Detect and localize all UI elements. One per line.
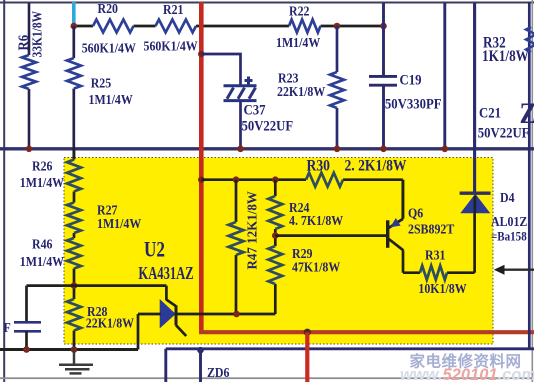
border frame right <box>532 0 534 382</box>
resistor R47 <box>229 222 244 255</box>
node red line junction <box>304 329 311 336</box>
red power line horizontal <box>199 330 534 334</box>
node divider junction <box>71 282 78 289</box>
node R23-bus junction <box>334 146 341 153</box>
wire C19 branch <box>382 3 385 149</box>
node cathode junction <box>233 311 240 318</box>
transistor Q6 <box>388 180 404 273</box>
svg-text:F: F <box>4 319 11 335</box>
resistor R20 <box>93 20 134 33</box>
resistor R26 <box>67 160 81 192</box>
svg-text:Z: Z <box>520 97 534 130</box>
wire cyan segment top <box>72 2 76 25</box>
wire U2 anode to ground <box>138 314 161 350</box>
svg-text:1M1/4W: 1M1/4W <box>89 91 133 107</box>
wire external arrow <box>502 269 534 271</box>
svg-text:Q6: Q6 <box>408 204 424 220</box>
wire R6 branch <box>28 3 31 149</box>
node Q6 base junction <box>272 232 279 239</box>
node C37 tap on red line <box>198 51 205 58</box>
svg-text:www.520101.com: www.520101.com <box>400 366 534 382</box>
red power line vertical <box>199 2 204 330</box>
wire R23 branch <box>336 26 339 149</box>
svg-text:C37: C37 <box>244 102 266 118</box>
node C19 top junction <box>380 23 387 30</box>
node ZD6 junction <box>197 347 204 354</box>
capacitor C37 <box>224 77 257 101</box>
resistor R21 <box>156 20 197 33</box>
svg-text:560K1/4W: 560K1/4W <box>144 38 198 54</box>
U2 anode tick <box>176 325 186 336</box>
wire D4 stem <box>474 196 477 213</box>
svg-text:1M1/4W: 1M1/4W <box>97 215 141 231</box>
svg-text:R26: R26 <box>32 158 53 174</box>
svg-text:R47 12K1/8W: R47 12K1/8W <box>244 191 260 270</box>
svg-text:4. 7K1/8W: 4. 7K1/8W <box>289 212 343 228</box>
svg-text:10K1/8W: 10K1/8W <box>418 280 466 296</box>
svg-text:22K1/8W: 22K1/8W <box>277 83 325 99</box>
diode D4 <box>461 195 489 213</box>
svg-text:R46: R46 <box>32 236 53 252</box>
node C37-bus junction <box>237 146 244 153</box>
node R47 top junction <box>233 176 240 183</box>
svg-text:C21: C21 <box>479 106 501 122</box>
wire ref node horizontal <box>27 286 167 322</box>
svg-text:R31: R31 <box>425 247 445 263</box>
svg-text:R30: R30 <box>307 158 330 175</box>
resistor R23 <box>330 72 344 108</box>
wire middle column <box>73 149 76 350</box>
wire R30 rail <box>201 180 402 219</box>
resistor R28 <box>67 299 81 331</box>
node top-left junction <box>71 23 78 30</box>
svg-text:=Ba158: =Ba158 <box>491 229 527 244</box>
capacitor CF <box>14 322 41 331</box>
wire ZD6 branch <box>199 350 202 382</box>
wire Q6 base <box>275 234 386 237</box>
svg-text:2SB892T: 2SB892T <box>408 220 455 236</box>
wire ground bus left <box>0 348 138 351</box>
wire right edge vertical <box>528 2 531 349</box>
resistor R25 <box>67 58 81 89</box>
resistor R24 <box>268 196 282 229</box>
svg-text:2. 2K1/8W: 2. 2K1/8W <box>345 158 407 175</box>
node R30 tap on red line <box>198 176 205 183</box>
capacitor C19 <box>369 76 397 85</box>
svg-text:KA431AZ: KA431AZ <box>138 264 193 284</box>
svg-text:C19: C19 <box>400 72 422 88</box>
svg-text:33K1/8W: 33K1/8W <box>29 11 44 58</box>
op-amp U2 KA431 regulator <box>160 300 175 327</box>
wire C37 branch <box>201 54 240 149</box>
U2 ref tick <box>166 300 176 307</box>
resistor R22 <box>289 20 321 33</box>
node x445-bus junction <box>442 146 449 153</box>
svg-text:560K1/4W: 560K1/4W <box>82 39 136 55</box>
border frame top <box>0 2 534 4</box>
svg-text:1M1/4W: 1M1/4W <box>20 253 64 269</box>
svg-text:AL01Z: AL01Z <box>491 213 527 229</box>
svg-text:1M1/4W: 1M1/4W <box>20 174 64 190</box>
svg-text:22K1/8W: 22K1/8W <box>86 314 134 330</box>
wire top horizontal rail <box>74 25 384 28</box>
resistor R27 <box>67 203 81 234</box>
wire red branch down <box>305 332 309 382</box>
node C19-bus junction <box>380 146 387 153</box>
wire mid bus horizontal <box>0 147 534 150</box>
node CF-ground junction <box>23 346 30 353</box>
node R28-ground junction <box>71 346 78 353</box>
wire R47 branch <box>235 180 238 222</box>
svg-text:D4: D4 <box>500 189 515 205</box>
wire R24 branch <box>274 180 277 246</box>
highlight region U2 block <box>64 158 493 345</box>
U2 cathode bar <box>175 305 178 325</box>
wire vertical feed to D4 <box>473 3 476 193</box>
wire R31 rail <box>403 213 475 273</box>
svg-text:1K1/8W: 1K1/8W <box>482 48 529 65</box>
wire CF bottom <box>25 331 28 349</box>
wire R25 column <box>72 26 75 160</box>
svg-text:50V330PF: 50V330PF <box>385 97 442 113</box>
resistor R31 <box>420 266 447 280</box>
node R24 top junction <box>272 176 279 183</box>
resistor R46 <box>67 238 81 269</box>
svg-text:R20: R20 <box>98 0 118 16</box>
svg-text:1M1/4W: 1M1/4W <box>276 34 320 50</box>
svg-text:R25: R25 <box>91 75 112 91</box>
resistor R6 <box>22 55 36 89</box>
resistor R32 <box>526 27 534 52</box>
svg-text:ZD6: ZD6 <box>207 364 230 380</box>
wire U2 cathode to divider <box>176 255 275 314</box>
svg-text:50V22UF: 50V22UF <box>242 119 294 135</box>
resistor R29 <box>268 246 282 284</box>
svg-text:47K1/8W: 47K1/8W <box>292 258 340 274</box>
wire vertical feed at x445 <box>443 3 446 149</box>
watermark line 2 <box>400 366 534 382</box>
svg-text:R21: R21 <box>163 1 183 17</box>
border frame left <box>3 0 5 382</box>
node R23 top junction <box>334 23 341 30</box>
svg-text:R22: R22 <box>289 2 309 18</box>
wire bottom rail right <box>166 349 534 382</box>
border frame bottom <box>0 377 534 379</box>
node R6-bus junction <box>26 146 32 152</box>
resistor R30 <box>306 173 343 187</box>
svg-text:U2: U2 <box>144 237 165 262</box>
ground <box>59 350 93 374</box>
